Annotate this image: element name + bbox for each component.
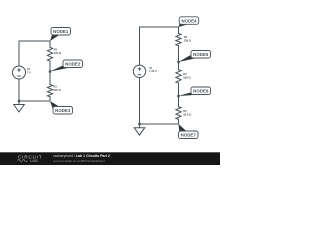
node flag NODE7 [179,124,199,139]
svg-text:7 V: 7 V [27,70,31,74]
svg-text:239 Ω: 239 Ω [184,39,192,43]
junction dot at V1 bottom [138,123,140,125]
junction dot node NODE2 [49,70,51,72]
label R2 value [53,84,61,92]
svg-text:R1: R1 [54,47,58,51]
wire: R5 bottom lead [178,119,180,124]
resistor R3 [176,34,181,46]
CircuitLab logo: waveform + LAB [18,159,39,163]
label V0 value [27,67,31,74]
wire: V0 bottom lead [18,79,20,101]
svg-text:NODE3: NODE3 [55,108,71,113]
wire: R1 bottom to R2 top (node NODE2) [49,61,51,85]
svg-text:LAB: LAB [30,159,38,163]
node flag NODE3 [50,101,73,114]
svg-text:NODE7: NODE7 [181,133,197,138]
junction dot node NODE6 [177,95,179,97]
label V1 value [149,66,157,73]
resistor R1 [47,48,52,62]
voltage source V0 plus/minus marks [17,68,20,76]
resistor R4 [176,70,181,83]
svg-text:R4: R4 [183,72,187,76]
svg-text:NODE5: NODE5 [193,52,209,57]
voltage source V0 circle [13,66,26,79]
svg-text:83.9 Ω: 83.9 Ω [183,112,192,116]
label R3 value [184,35,192,43]
svg-text:100 Ω: 100 Ω [54,51,62,55]
wire: R4 bottom to R5 top (node NODE6) [178,83,180,107]
svg-text:500 Ω: 500 Ω [53,88,61,92]
wire: R3 bottom to R4 top (node NODE5) [178,46,180,70]
wire: R3 top lead [178,27,180,34]
resistor R5 [176,107,181,120]
svg-text:R2: R2 [53,84,57,88]
label R4 value [183,72,191,80]
resistor R2 [47,85,52,97]
wire: left circuit top-left vertical [18,41,20,66]
wire: R2 bottom lead [49,97,51,101]
svg-text:R5: R5 [183,109,187,113]
wire: V1 top lead [139,27,141,65]
junction dot node NODE5 [177,61,179,63]
wire: V1 bottom lead [139,78,141,125]
label R1 value [54,47,62,55]
svg-text:R3: R3 [184,35,188,39]
node flag NODE4 [179,17,199,27]
wire: right circuit bottom horizontal [140,123,179,125]
wire: left circuit bottom horizontal [19,100,50,102]
wire: left circuit top horizontal [19,40,50,42]
svg-text:539 Ω: 539 Ω [183,75,191,79]
voltage source V1 plus/minus marks [138,67,141,75]
svg-text:NODE1: NODE1 [53,29,69,34]
svg-text:www.circuitlab.com/c/8f57a6da2: www.circuitlab.com/c/8f57a6da23cb/p2 [53,159,105,163]
ground (right) [134,124,145,135]
svg-text:NODE2: NODE2 [65,62,81,67]
voltage source V1 circle [133,65,145,77]
label R5 value [183,109,192,117]
wire: R1 top lead [49,41,51,48]
junction dot at V0 bottom [18,100,20,102]
svg-text:NODE6: NODE6 [193,89,209,94]
node flag NODE6 [179,87,211,96]
wire: right circuit top horizontal [140,26,179,28]
svg-text:zacharyhodd / Lab 1 Circuits P: zacharyhodd / Lab 1 Circuits Part 2 [53,154,110,158]
ground (left) [14,101,25,112]
node flag NODE5 [179,51,211,63]
node flag NODE1 [50,28,71,42]
node flag NODE2 [50,60,83,72]
footer bar [0,152,220,165]
svg-text:NODE4: NODE4 [181,18,197,23]
svg-text:7.39 V: 7.39 V [149,69,157,73]
